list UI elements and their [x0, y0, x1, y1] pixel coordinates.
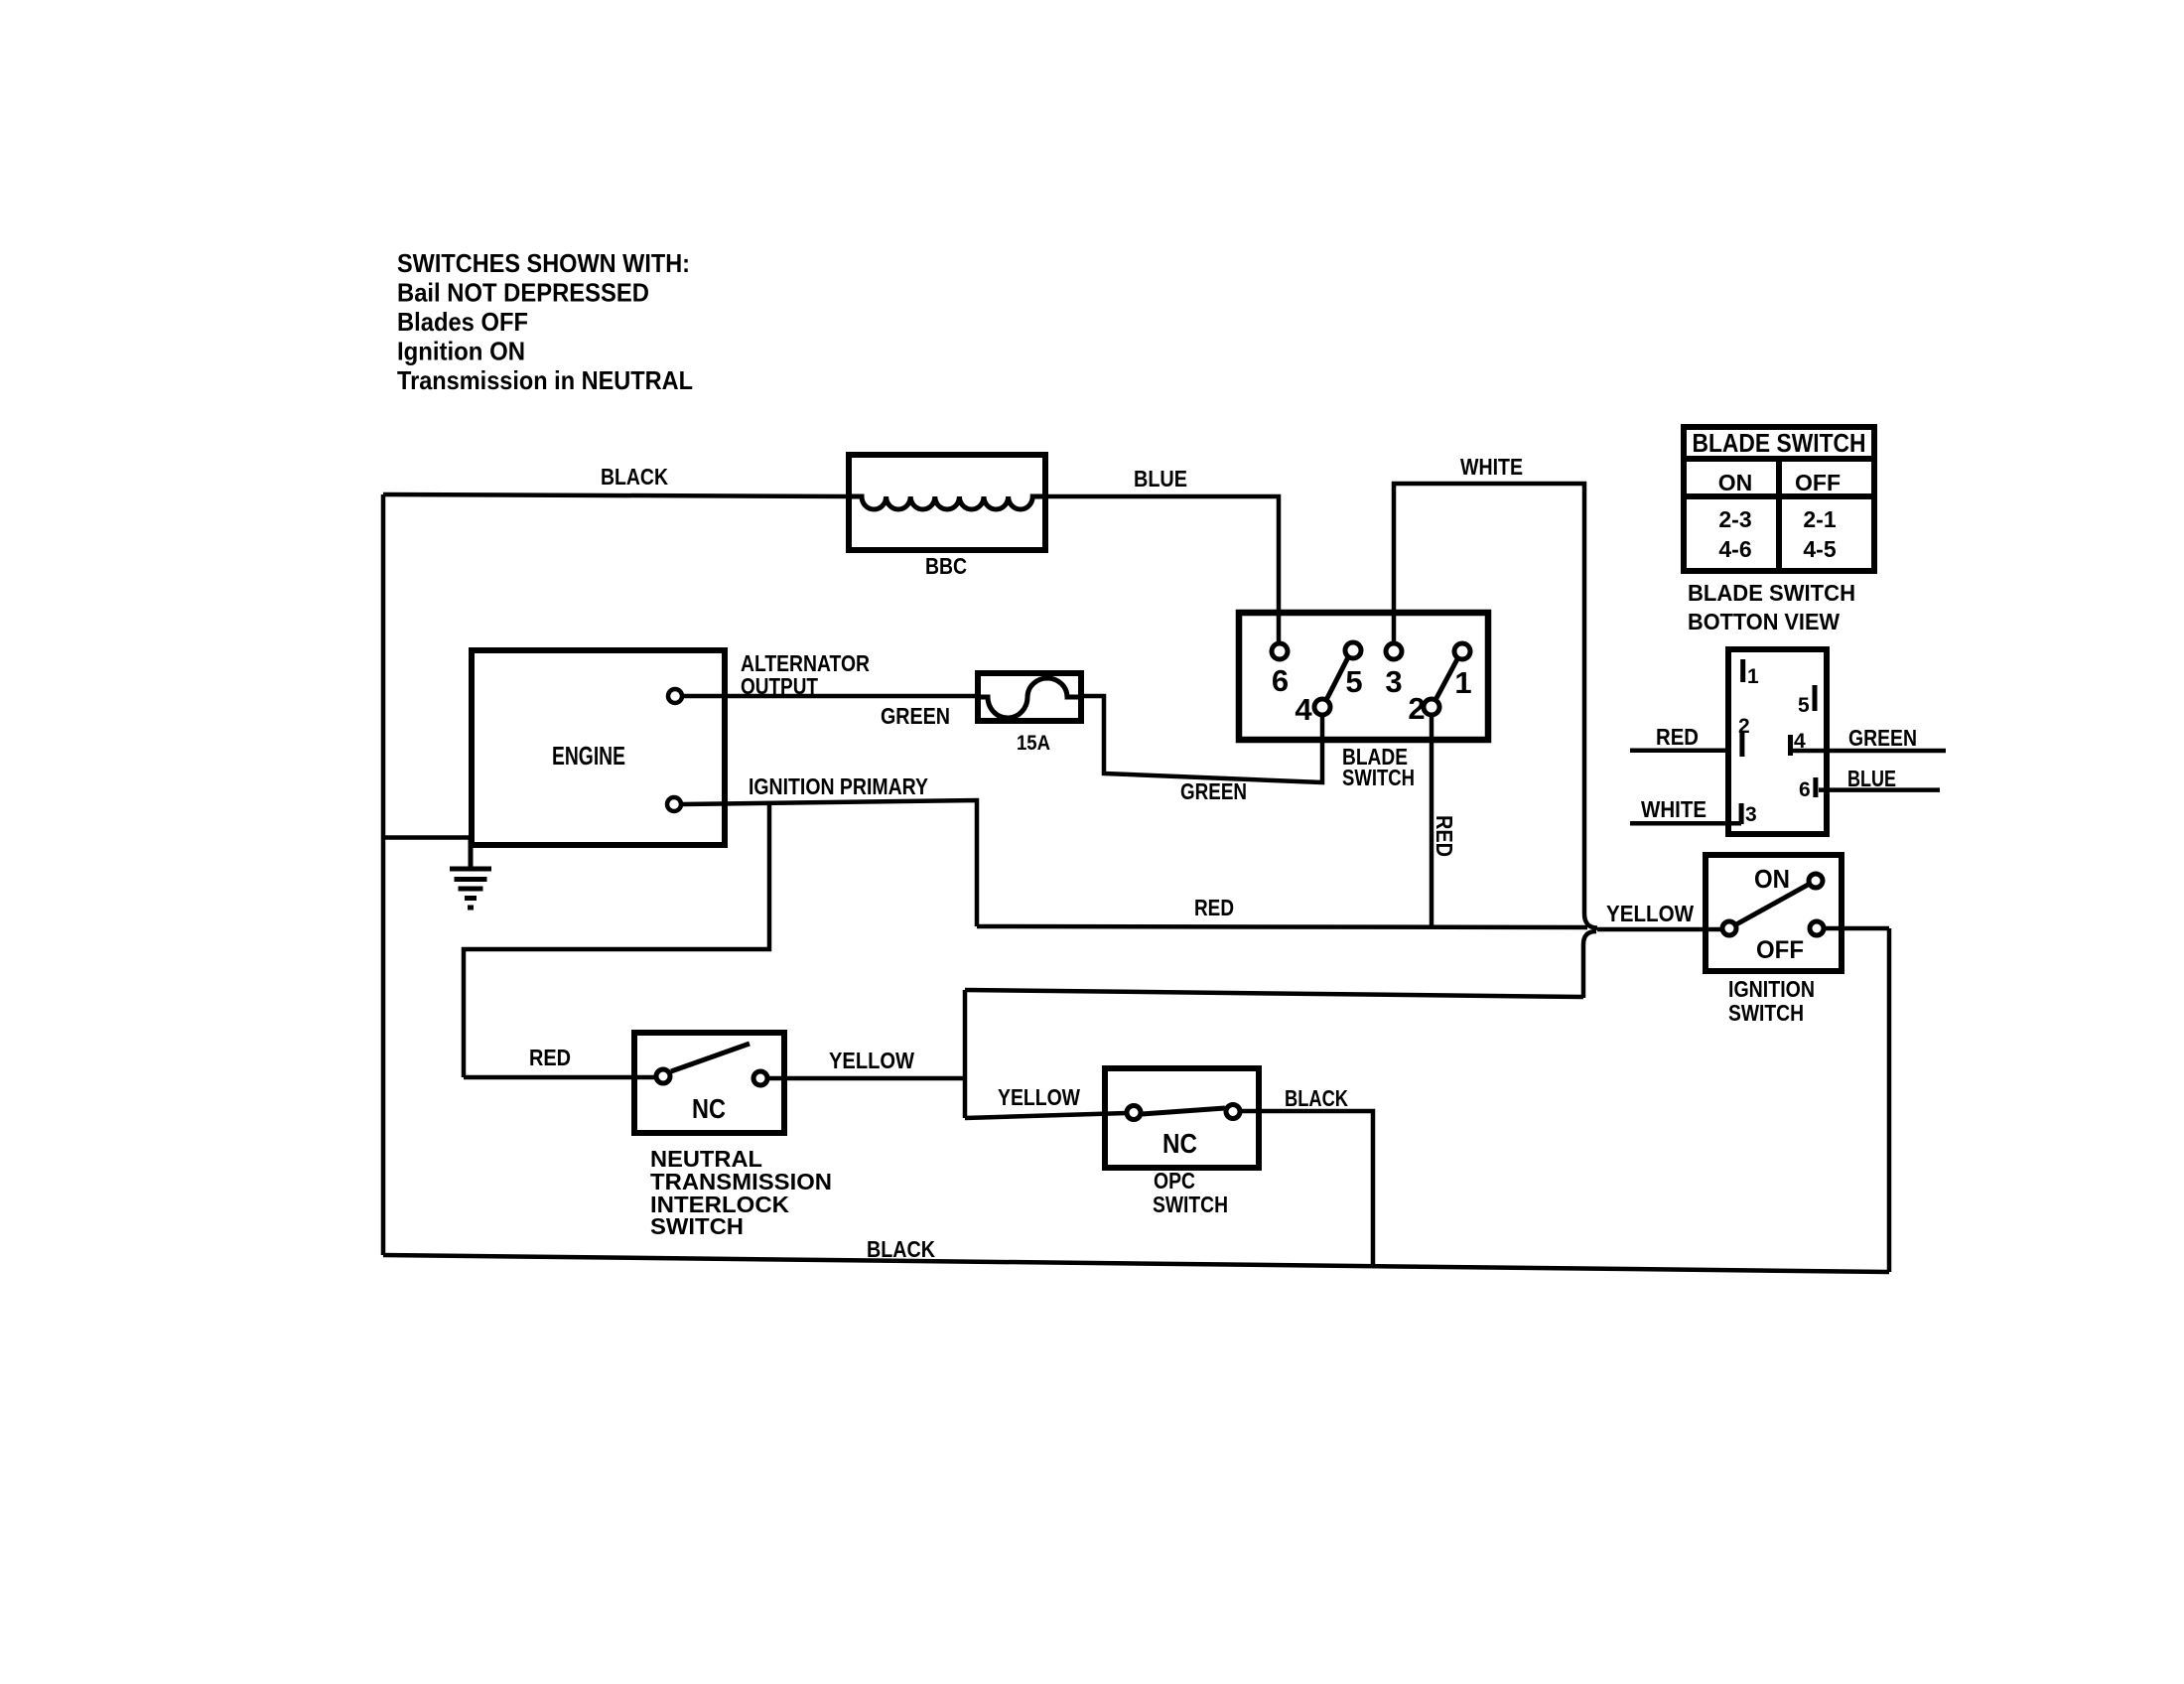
- wire RED blade switch pin 2 down: [1430, 715, 1434, 926]
- wire BLUE (BBC to blade switch pin 6): [1045, 496, 1279, 643]
- bottom view wire WHITE: [1630, 821, 1741, 826]
- svg-text:3: 3: [1385, 664, 1402, 699]
- svg-text:1: 1: [1747, 665, 1759, 688]
- svg-text:BLUE: BLUE: [1134, 466, 1187, 491]
- bottom view pin 4: [1788, 735, 1793, 756]
- svg-text:BLUE: BLUE: [1847, 766, 1896, 791]
- svg-text:YELLOW: YELLOW: [1606, 901, 1694, 926]
- svg-text:BLACK: BLACK: [601, 464, 668, 490]
- blade switch pin 2: [1424, 699, 1439, 715]
- svg-text:YELLOW: YELLOW: [998, 1084, 1080, 1110]
- OPC left terminal: [1127, 1106, 1141, 1120]
- ignition switch lever: [1736, 884, 1810, 924]
- svg-text:WHITE: WHITE: [1641, 796, 1706, 822]
- blade switch pin numbers: [1272, 663, 1472, 727]
- svg-text:BLADE SWITCH: BLADE SWITCH: [1688, 580, 1855, 606]
- bottom view pin 3: [1739, 803, 1744, 824]
- blade switch lever 4-5: [1326, 657, 1348, 700]
- svg-text:NC: NC: [692, 1093, 726, 1124]
- svg-text:2-1: 2-1: [1803, 506, 1836, 532]
- wire engine to ground rail: [383, 835, 472, 840]
- svg-text:15A: 15A: [1017, 732, 1050, 755]
- svg-text:3: 3: [1745, 803, 1757, 826]
- blade switch pin 1: [1454, 643, 1470, 659]
- bottom view pin 6: [1813, 777, 1818, 797]
- svg-text:Blades OFF: Blades OFF: [397, 307, 528, 337]
- wire left rail: [381, 494, 386, 1255]
- wire ignition primary run: [682, 800, 977, 926]
- svg-text:ON: ON: [1754, 864, 1790, 894]
- wire YELLOW node to OPC switch: [965, 1113, 1127, 1118]
- bottom view wire GREEN: [1791, 749, 1947, 754]
- wire ignition switch to right rail: [1824, 926, 1889, 931]
- svg-text:OFF: OFF: [1756, 936, 1804, 964]
- blade switch pin 6: [1272, 643, 1288, 659]
- engine terminal ignition primary: [667, 797, 681, 811]
- svg-text:Ignition ON: Ignition ON: [397, 337, 525, 366]
- fuse F1 box: [978, 673, 1081, 721]
- svg-text:1: 1: [1454, 665, 1471, 700]
- svg-text:GREEN: GREEN: [1848, 725, 1917, 751]
- neutral interlock lever: [671, 1044, 750, 1071]
- svg-text:5: 5: [1345, 664, 1362, 699]
- svg-text:6: 6: [1272, 663, 1289, 698]
- bottom view wire RED: [1630, 748, 1729, 753]
- svg-text:NC: NC: [1162, 1128, 1197, 1159]
- wire YELLOW junction to ignition switch: [1597, 927, 1722, 932]
- neutral transmission interlock switch box: [634, 1033, 784, 1133]
- junction hooks at yellow node: [1583, 913, 1597, 998]
- svg-text:BLADE SWITCH: BLADE SWITCH: [1693, 428, 1866, 458]
- wire BLACK OPC to bottom rail: [1240, 1111, 1373, 1266]
- label BLADE SWITCH: [1342, 744, 1415, 790]
- OPC switch box: [1105, 1068, 1259, 1168]
- svg-text:SWITCH: SWITCH: [1153, 1192, 1228, 1217]
- blade switch pin 3: [1386, 643, 1402, 659]
- svg-text:SWITCH: SWITCH: [1728, 1000, 1804, 1026]
- svg-text:BLACK: BLACK: [1285, 1085, 1348, 1111]
- wire RED to neutral interlock switch: [464, 1075, 656, 1080]
- label BLADE SWITCH BOTTON VIEW: [1688, 580, 1855, 634]
- wire yellow node to junction: [965, 990, 1583, 997]
- svg-text:WHITE: WHITE: [1460, 454, 1523, 480]
- blade switch lever 2-1: [1435, 657, 1458, 700]
- svg-text:4-6: 4-6: [1718, 536, 1751, 562]
- svg-text:BLACK: BLACK: [867, 1236, 935, 1262]
- svg-text:IGNITION PRIMARY: IGNITION PRIMARY: [749, 773, 928, 799]
- svg-text:2-3: 2-3: [1718, 506, 1751, 532]
- label NEUTRAL TRANSMISSION INTERLOCK SWITCH: [650, 1146, 832, 1239]
- svg-text:2: 2: [1738, 715, 1750, 738]
- svg-text:SWITCH: SWITCH: [650, 1213, 744, 1239]
- blade switch table: [1684, 427, 1874, 571]
- BBC coil winding: [849, 496, 1045, 509]
- svg-text:4-5: 4-5: [1803, 536, 1836, 562]
- svg-text:RED: RED: [529, 1045, 571, 1070]
- neutral interlock left terminal: [656, 1069, 670, 1083]
- engine box: [472, 650, 725, 845]
- wire right rail: [1887, 928, 1892, 1272]
- svg-text:2: 2: [1408, 691, 1425, 726]
- wire yellow node vertical: [963, 990, 968, 1118]
- svg-text:RED: RED: [1432, 815, 1457, 857]
- BBC brake/clutch coil box: [849, 455, 1045, 550]
- svg-text:5: 5: [1798, 694, 1810, 717]
- wire YELLOW neutral interlock to node: [767, 1076, 965, 1081]
- ignition switch OFF terminal: [1810, 921, 1824, 935]
- svg-text:YELLOW: YELLOW: [829, 1048, 914, 1073]
- svg-text:Transmission in NEUTRAL: Transmission in NEUTRAL: [397, 365, 693, 395]
- bottom view pin 1: [1740, 659, 1745, 682]
- ignition switch box: [1706, 855, 1842, 971]
- svg-text:BBC: BBC: [925, 553, 967, 579]
- wire RED long to junction: [977, 926, 1587, 927]
- OPC lever: [1142, 1108, 1225, 1114]
- svg-text:ON: ON: [1718, 470, 1753, 495]
- ground: [450, 838, 491, 909]
- wire BLACK top (engine ground loop to BBC): [383, 494, 849, 496]
- wire GREEN fuse to blade switch pin 4: [1081, 696, 1322, 782]
- bottom view pin 5: [1813, 685, 1818, 711]
- svg-text:GREEN: GREEN: [1180, 778, 1247, 804]
- blade switch bottom view box: [1728, 649, 1827, 834]
- bottom view wire BLUE: [1819, 787, 1940, 792]
- svg-text:RED: RED: [1194, 895, 1234, 920]
- label ALTERNATOR OUTPUT: [741, 650, 870, 699]
- wire alternator output GREEN to fuse: [683, 694, 978, 699]
- svg-text:4: 4: [1295, 692, 1312, 727]
- wire ignition primary branch down: [464, 801, 769, 1077]
- note text block: [397, 248, 693, 395]
- svg-text:6: 6: [1799, 778, 1811, 801]
- ignition switch ON terminal: [1809, 874, 1823, 888]
- wire bottom BLACK: [383, 1255, 1889, 1272]
- svg-text:OFF: OFF: [1795, 470, 1841, 495]
- svg-text:ENGINE: ENGINE: [552, 741, 625, 771]
- svg-text:BOTTON VIEW: BOTTON VIEW: [1688, 609, 1840, 634]
- svg-text:OPC: OPC: [1154, 1168, 1195, 1193]
- svg-text:GREEN: GREEN: [881, 703, 950, 729]
- blade switch box: [1239, 613, 1488, 740]
- svg-text:SWITCH: SWITCH: [1342, 765, 1415, 790]
- ignition switch common terminal: [1722, 921, 1736, 935]
- fuse F1 element: [978, 678, 1081, 718]
- blade switch pin 4: [1314, 699, 1330, 715]
- blade switch pin 5: [1345, 642, 1361, 658]
- svg-text:RED: RED: [1656, 724, 1699, 750]
- OPC right terminal: [1226, 1105, 1240, 1119]
- svg-text:Bail NOT DEPRESSED: Bail NOT DEPRESSED: [397, 278, 649, 308]
- svg-text:SWITCHES SHOWN WITH:: SWITCHES SHOWN WITH:: [397, 248, 690, 278]
- bottom view pin 2: [1739, 732, 1744, 757]
- label OPC SWITCH: [1153, 1168, 1228, 1217]
- neutral interlock right terminal: [753, 1071, 767, 1085]
- label IGNITION SWITCH: [1728, 976, 1815, 1026]
- wire WHITE (blade switch pin 3 up and over to right rail): [1394, 484, 1584, 913]
- engine terminal alternator output: [668, 689, 682, 703]
- table texts: [1693, 428, 1866, 562]
- svg-text:IGNITION: IGNITION: [1728, 976, 1815, 1002]
